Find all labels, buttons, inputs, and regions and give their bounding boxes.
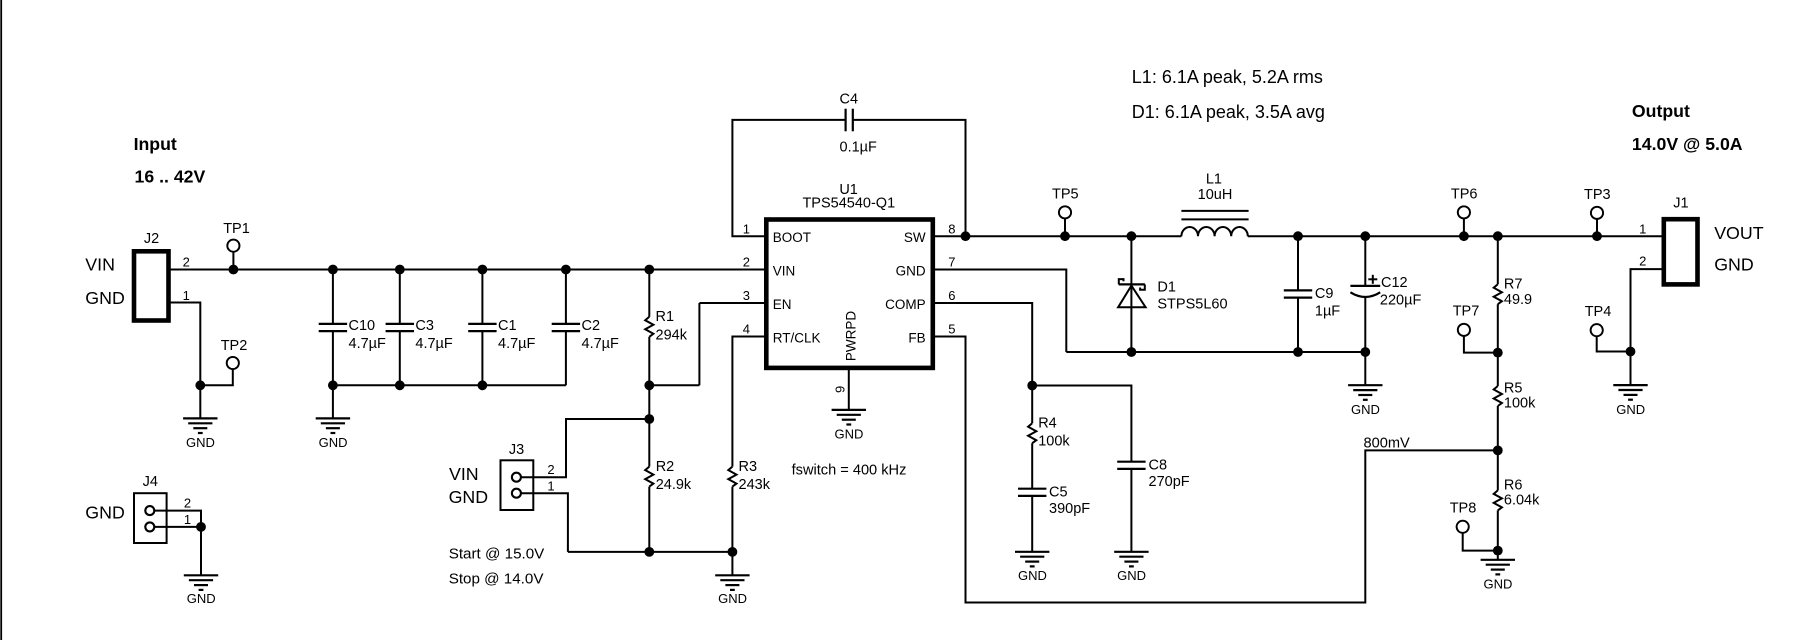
resistor R5 top lead: [1497, 353, 1499, 386]
svg-text:GND: GND: [896, 263, 926, 278]
output rail C12 to TP6: [1365, 235, 1464, 237]
wire BOOT pin to C4 left leg: [732, 120, 845, 236]
wire EN pin: [699, 302, 766, 304]
J4 pin 2 circle: [145, 506, 154, 515]
capacitor C1: [468, 323, 496, 325]
svg-text:6: 6: [948, 288, 955, 303]
wire VIN rail C2 to R1: [566, 269, 649, 271]
svg-text:D1: D1: [1157, 279, 1176, 295]
svg-text:STPS5L60: STPS5L60: [1157, 296, 1227, 312]
capacitor C9: [1284, 289, 1312, 291]
J3 pin 2 circle: [512, 473, 521, 482]
wire TP3 stub: [1596, 219, 1598, 236]
capacitor C12 top plate: [1350, 285, 1380, 287]
wire J1 pin2 to ground node: [1631, 269, 1664, 351]
connector J4: [134, 493, 167, 543]
junction TP3: [1592, 231, 1602, 241]
wire VIN rail C3 to C1: [400, 269, 483, 271]
svg-text:49.9: 49.9: [1504, 292, 1532, 308]
svg-text:fswitch = 400 kHz: fswitch = 400 kHz: [792, 462, 907, 478]
capacitor C1 bottom lead: [481, 331, 483, 385]
svg-text:800mV: 800mV: [1364, 435, 1411, 451]
ground symbol R6: [1481, 559, 1515, 561]
ground symbol C5: [1015, 551, 1049, 553]
svg-text:L1: 6.1A peak, 5.2A rms: L1: 6.1A peak, 5.2A rms: [1132, 67, 1323, 87]
resistor R4 top lead: [1031, 386, 1033, 424]
junction R3 bottom ground node: [728, 547, 738, 557]
svg-text:GND: GND: [718, 591, 747, 606]
svg-text:1: 1: [184, 512, 191, 527]
svg-text:RT/CLK: RT/CLK: [773, 330, 821, 345]
capacitor C12 bottom lead: [1364, 297, 1366, 352]
svg-text:TP5: TP5: [1052, 187, 1079, 203]
capacitor C5: [1018, 488, 1046, 490]
resistor R7: [1494, 284, 1502, 304]
svg-text:390pF: 390pF: [1049, 501, 1090, 517]
output rail L1 to C9: [1248, 235, 1298, 237]
svg-text:C3: C3: [415, 318, 434, 334]
junction C10 on VIN rail: [328, 265, 338, 275]
svg-text:TPS54540-Q1: TPS54540-Q1: [802, 196, 895, 212]
resistor R4: [1028, 423, 1036, 443]
output rail TP3 to J1: [1597, 235, 1664, 237]
svg-text:VOUT: VOUT: [1714, 223, 1764, 243]
ground symbol C8: [1114, 551, 1148, 553]
svg-text:5: 5: [948, 322, 955, 337]
junction TP5: [1060, 231, 1070, 241]
svg-text:243k: 243k: [739, 477, 771, 493]
connector J3: [501, 460, 534, 510]
svg-text:TP6: TP6: [1451, 187, 1478, 203]
capacitor C4 left plate: [844, 109, 846, 132]
svg-text:270pF: 270pF: [1149, 474, 1190, 490]
connector J2: [134, 251, 169, 320]
svg-text:R5: R5: [1504, 380, 1523, 396]
junction TP2/J2 ground node: [195, 380, 205, 390]
svg-text:FB: FB: [908, 330, 925, 345]
ground symbol C12: [1348, 384, 1382, 386]
svg-text:J2: J2: [144, 231, 159, 247]
bottom ground rail J3 to R3: [568, 551, 733, 553]
svg-text:C12: C12: [1381, 275, 1408, 291]
capacitor C8: [1117, 461, 1145, 463]
svg-text:100k: 100k: [1504, 396, 1536, 412]
wire TP5 stub: [1064, 219, 1066, 237]
output rail TP6 to R7: [1464, 235, 1498, 237]
C12 plus sign vertical: [1372, 275, 1374, 284]
svg-text:TP4: TP4: [1585, 304, 1612, 320]
svg-text:4.7µF: 4.7µF: [415, 336, 453, 352]
wire J2 pin2 to VIN rail: [169, 269, 234, 271]
wire C10 ground drop: [332, 385, 334, 418]
capacitor C10 bottom lead: [332, 331, 334, 385]
resistor R7 bottom lead: [1497, 304, 1499, 352]
junction R7 top: [1493, 231, 1503, 241]
test point TP3: [1591, 207, 1603, 219]
svg-text:2: 2: [1639, 254, 1646, 269]
svg-text:BOOT: BOOT: [773, 230, 811, 245]
svg-text:C5: C5: [1049, 484, 1068, 500]
svg-text:2: 2: [743, 255, 750, 270]
svg-text:GND: GND: [449, 487, 489, 507]
resistor R3 bottom lead: [731, 487, 733, 552]
J3 pin 1 circle: [512, 489, 521, 498]
wire J2 pin1 to GND drop: [169, 303, 201, 386]
capacitor C8 bottom lead: [1130, 469, 1132, 552]
wire GND drop to ground: [199, 385, 201, 418]
capacitor C2 top lead: [565, 270, 567, 324]
svg-text:TP2: TP2: [221, 338, 248, 354]
wire RT/CLK pin to R3: [732, 337, 766, 467]
svg-text:C8: C8: [1149, 457, 1168, 473]
svg-text:PWRPD: PWRPD: [843, 311, 858, 362]
wire TP4 stub: [1597, 336, 1631, 351]
page left border line: [0, 0, 2, 640]
diode D1 schottky cathode bar: [1119, 283, 1145, 285]
wire TP1 stub: [232, 252, 234, 270]
wire VIN rail C1 to C2: [482, 269, 566, 271]
junction C1 on VIN rail: [478, 265, 488, 275]
svg-text:24.9k: 24.9k: [656, 477, 692, 493]
wire COMP node to C8: [1032, 386, 1131, 462]
svg-text:Output: Output: [1632, 101, 1690, 121]
resistor R2 bottom lead: [648, 487, 650, 552]
svg-text:R4: R4: [1038, 416, 1057, 432]
junction C1 ground rail: [478, 380, 488, 390]
junction R1 bottom EN node: [644, 380, 654, 390]
wire COMP pin to R4: [933, 303, 1032, 386]
svg-text:Input: Input: [134, 134, 177, 154]
resistor R5: [1494, 386, 1502, 406]
test point TP1: [227, 240, 239, 252]
svg-text:R7: R7: [1504, 277, 1523, 293]
svg-text:R1: R1: [656, 309, 675, 325]
wire EN node horizontal: [649, 384, 699, 386]
svg-text:R6: R6: [1504, 477, 1523, 493]
svg-text:C1: C1: [498, 318, 517, 334]
junction J4 ground node: [196, 522, 206, 532]
ground symbol R3: [715, 574, 749, 576]
svg-text:100k: 100k: [1038, 433, 1070, 449]
SW rail TP5 to D1: [1065, 235, 1131, 237]
svg-text:VIN: VIN: [773, 263, 796, 278]
svg-text:TP7: TP7: [1453, 304, 1480, 320]
svg-text:1: 1: [1639, 221, 1646, 236]
svg-text:J4: J4: [143, 474, 158, 490]
svg-text:C2: C2: [582, 318, 601, 334]
inductor L1 core line 2: [1181, 218, 1248, 220]
capacitor C12 curved bottom plate: [1350, 292, 1380, 297]
svg-text:2: 2: [183, 255, 190, 270]
svg-text:1: 1: [547, 478, 554, 493]
diode D1 schottky right hook: [1140, 284, 1145, 289]
wire TP2 stub to GND node: [200, 369, 233, 385]
svg-text:GND: GND: [835, 426, 864, 441]
svg-text:GND: GND: [186, 435, 215, 450]
inductor L1 winding: [1181, 227, 1247, 236]
svg-text:TP8: TP8: [1450, 501, 1477, 517]
output rail C9 to C12: [1298, 235, 1365, 237]
test point TP6: [1458, 206, 1470, 218]
test point TP7: [1458, 324, 1470, 336]
resistor R1 top lead: [648, 270, 650, 317]
svg-text:GND: GND: [319, 435, 348, 450]
capacitor C12 top lead: [1364, 236, 1366, 286]
svg-text:GND: GND: [85, 288, 125, 308]
svg-text:COMP: COMP: [885, 297, 926, 312]
wire J4 ground drop: [200, 527, 202, 575]
svg-text:2: 2: [184, 496, 191, 511]
junction C12 top: [1360, 231, 1370, 241]
test point TP4: [1591, 324, 1603, 336]
ground symbol J2: [183, 417, 217, 419]
capacitor C4 right plate: [852, 109, 854, 132]
wire R1 to R2 node: [648, 385, 650, 419]
svg-text:GND: GND: [85, 503, 125, 523]
svg-text:14.0V @ 5.0A: 14.0V @ 5.0A: [1632, 134, 1743, 154]
svg-text:2: 2: [547, 462, 554, 477]
svg-text:VIN: VIN: [449, 464, 479, 484]
C12 plus sign horizontal: [1368, 278, 1377, 280]
junction SW C4 node: [961, 231, 971, 241]
connector J1: [1664, 219, 1698, 284]
svg-text:GND: GND: [1018, 568, 1047, 583]
capacitor C2 bottom lead: [565, 331, 567, 385]
output rail R7 to TP3: [1498, 235, 1597, 237]
svg-text:Stop @ 14.0V: Stop @ 14.0V: [449, 571, 545, 588]
svg-text:6.04k: 6.04k: [1504, 492, 1540, 508]
junction C10 ground rail: [328, 380, 338, 390]
resistor R3: [728, 467, 736, 487]
inductor L1 core line 1: [1181, 210, 1248, 212]
resistor R6: [1494, 490, 1502, 510]
svg-text:10uH: 10uH: [1198, 187, 1233, 203]
svg-text:4.7µF: 4.7µF: [349, 336, 387, 352]
svg-text:VIN: VIN: [85, 255, 115, 275]
wire SW pin to junction: [933, 235, 966, 237]
svg-text:1: 1: [183, 288, 190, 303]
svg-text:9: 9: [833, 386, 848, 393]
wire C4 right leg to SW node: [853, 120, 966, 236]
svg-text:294k: 294k: [656, 328, 688, 344]
wire J3 pin1 to ground rail: [521, 493, 568, 552]
test point TP5: [1059, 206, 1071, 218]
wire VIN rail C10 to C3: [333, 269, 400, 271]
junction C9 top: [1293, 231, 1303, 241]
junction C3 ground rail: [395, 380, 405, 390]
svg-text:J3: J3: [509, 442, 524, 458]
test point TP2: [227, 357, 239, 369]
svg-text:J1: J1: [1673, 196, 1688, 212]
wire J4 pin1: [154, 526, 201, 528]
junction R7 R5 TP7 node: [1493, 348, 1503, 358]
wire VIN rail R1 to U1 VIN pin: [649, 269, 766, 271]
junction TP6: [1459, 231, 1469, 241]
svg-text:SW: SW: [904, 230, 926, 245]
svg-text:3: 3: [743, 288, 750, 303]
wire TP7 stub: [1464, 336, 1498, 353]
svg-text:Start @ 15.0V: Start @ 15.0V: [449, 546, 545, 563]
capacitor C9 top lead: [1297, 236, 1299, 290]
wire U1 GND pin to power rail: [933, 270, 1067, 353]
wire J1 ground drop: [1630, 352, 1632, 386]
svg-text:GND: GND: [1117, 568, 1146, 583]
wire R6 ground drop: [1497, 551, 1499, 560]
svg-text:GND: GND: [187, 591, 216, 606]
svg-text:16 .. 42V: 16 .. 42V: [135, 167, 206, 187]
resistor R6 top lead: [1497, 450, 1499, 490]
ground symbol U1 pin 9: [832, 409, 866, 411]
input caps ground rail: [333, 384, 566, 386]
junction R6 TP8 ground node: [1493, 546, 1503, 556]
junction R4 top: [1027, 381, 1037, 391]
svg-text:R3: R3: [739, 459, 758, 475]
capacitor C3 top lead: [399, 270, 401, 324]
svg-text:220µF: 220µF: [1380, 292, 1422, 308]
svg-text:L1: L1: [1206, 171, 1222, 187]
resistor R1 bottom lead: [648, 337, 650, 386]
junction R2 top node: [644, 414, 654, 424]
SW rail D1 to L1: [1131, 235, 1181, 237]
svg-text:TP3: TP3: [1584, 187, 1611, 203]
svg-text:GND: GND: [1351, 402, 1380, 417]
wire J4 pin2: [154, 511, 201, 527]
capacitor C1 top lead: [481, 270, 483, 324]
wire U1 pin 9 to ground: [848, 368, 850, 410]
capacitor C3 bottom lead: [399, 331, 401, 385]
resistor R7 top lead: [1497, 236, 1499, 284]
junction TP1 on VIN rail: [229, 265, 239, 275]
junction C2 on VIN rail: [561, 265, 571, 275]
capacitor C9 bottom lead: [1297, 298, 1299, 352]
ground symbol J1: [1613, 384, 1647, 386]
svg-text:4.7µF: 4.7µF: [582, 336, 620, 352]
diode D1 schottky left hook: [1119, 279, 1124, 284]
svg-text:R2: R2: [656, 459, 675, 475]
junction D1 top: [1127, 231, 1137, 241]
junction J1 ground TP4 node: [1626, 347, 1636, 357]
svg-text:4.7µF: 4.7µF: [498, 336, 536, 352]
junction R2 bottom: [644, 547, 654, 557]
wire TP8 stub: [1463, 533, 1498, 551]
resistor R2: [645, 467, 653, 487]
svg-text:8: 8: [948, 221, 955, 236]
wire VIN rail TP1 to C10: [233, 269, 333, 271]
SW rail to TP5: [966, 235, 1066, 237]
svg-text:D1: 6.1A peak, 3.5A avg: D1: 6.1A peak, 3.5A avg: [1132, 102, 1325, 122]
svg-text:TP1: TP1: [223, 221, 250, 237]
wire C12 ground drop: [1364, 352, 1366, 385]
ground symbol input caps: [316, 417, 350, 419]
wire TP6 stub: [1463, 219, 1465, 237]
svg-text:1: 1: [743, 221, 750, 236]
resistor R1: [645, 317, 653, 337]
svg-text:4: 4: [743, 322, 750, 337]
capacitor C10 top lead: [332, 270, 334, 324]
wire EN node up to EN pin: [698, 303, 700, 385]
J4 pin 1 circle: [145, 522, 154, 531]
power ground rail: [1066, 351, 1365, 353]
capacitor C3: [386, 323, 414, 325]
svg-text:0.1µF: 0.1µF: [840, 139, 878, 155]
capacitor C2: [552, 323, 580, 325]
svg-text:1µF: 1µF: [1315, 304, 1340, 320]
resistor R2 top lead: [648, 419, 650, 467]
op IC U1 TPS54540-Q1 body: [766, 220, 933, 368]
wire J3 pin2 to R2 top node: [521, 419, 649, 477]
junction R1 on VIN rail: [644, 265, 654, 275]
svg-text:GND: GND: [1484, 577, 1513, 592]
svg-text:C10: C10: [349, 318, 376, 334]
resistor R5 bottom lead: [1497, 406, 1499, 450]
wire R4 to C5: [1031, 443, 1033, 489]
svg-text:C4: C4: [840, 92, 859, 108]
wire R3 ground drop: [731, 552, 733, 575]
capacitor C5 bottom lead: [1031, 496, 1033, 552]
junction C3 on VIN rail: [395, 265, 405, 275]
resistor R6 bottom lead: [1497, 510, 1499, 550]
junction D1 bottom: [1127, 347, 1137, 357]
svg-text:GND: GND: [1616, 402, 1645, 417]
wire FB pin down and across: [933, 337, 1498, 603]
ground symbol J4: [184, 574, 218, 576]
junction C9 bottom: [1293, 347, 1303, 357]
capacitor C10: [319, 323, 347, 325]
svg-text:GND: GND: [1714, 254, 1754, 274]
diode D1 triangle: [1118, 286, 1146, 308]
junction C12 bottom: [1360, 347, 1370, 357]
svg-text:7: 7: [948, 255, 955, 270]
diode D1 vertical wire: [1130, 236, 1132, 352]
junction FB 800mV node: [1493, 446, 1503, 456]
svg-text:EN: EN: [773, 297, 792, 312]
svg-text:C9: C9: [1315, 286, 1334, 302]
test point TP8: [1457, 521, 1469, 533]
